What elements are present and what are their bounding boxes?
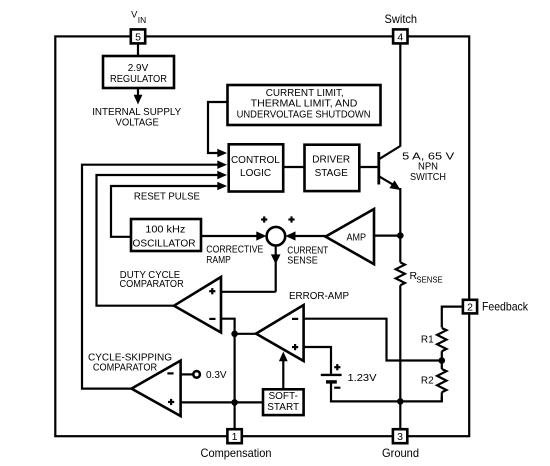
svg-text:SENSE: SENSE (416, 276, 442, 285)
svg-text:SOFT-: SOFT- (268, 391, 297, 402)
cycle skipping comparator label (88, 352, 172, 373)
pin 1 (Compensation) (227, 429, 241, 443)
svg-text:Compensation: Compensation (201, 446, 272, 460)
net current sense label (287, 245, 328, 266)
resistor R1 (437, 328, 446, 361)
regulator U-REG 2.9V (103, 56, 174, 88)
svg-text:100 kHz: 100 kHz (145, 225, 185, 236)
svg-text:Feedback: Feedback (482, 300, 529, 314)
wire cycle-skip output to control logic (82, 161, 227, 389)
net corrective ramp label (206, 245, 263, 266)
svg-text:2.9V: 2.9V (128, 63, 149, 74)
node junction emitter/amp/Rsense (397, 232, 404, 239)
oscillator block 100 kHz (131, 219, 201, 251)
wire oscillator reset pulse to control logic (111, 182, 227, 237)
pin 5 (Vin) (131, 29, 145, 43)
wire error-amp plus input to reference (304, 347, 331, 375)
pin 3 (Ground) (393, 429, 407, 443)
node junction ground net (397, 398, 404, 405)
wire oscillator to summing node (201, 231, 266, 240)
svg-text:CONTROL: CONTROL (231, 155, 280, 166)
duty cycle comparator label (120, 270, 184, 290)
battery reference 1.23V (321, 364, 342, 388)
svg-text:UNDERVOLTAGE SHUTDOWN: UNDERVOLTAGE SHUTDOWN (237, 110, 371, 121)
wire duty-cycle output to control logic (97, 171, 228, 306)
svg-text:SWITCH: SWITCH (410, 172, 446, 183)
svg-text:5: 5 (135, 31, 141, 43)
svg-text:COMPARATOR: COMPARATOR (120, 279, 184, 290)
svg-text:2: 2 (467, 302, 473, 314)
node Vin label (131, 10, 146, 25)
svg-text:DRIVER: DRIVER (312, 155, 350, 166)
block control logic (229, 144, 284, 191)
wire error-amp output (235, 333, 257, 335)
outer IC boundary (55, 36, 469, 436)
node junction compensation net (231, 399, 238, 406)
svg-text:STAGE: STAGE (315, 168, 348, 179)
wire regulator output arrow (134, 88, 143, 105)
svg-text:Ground: Ground (382, 446, 419, 460)
summing node plus sign left (261, 216, 267, 222)
summing node plus sign right (288, 216, 294, 222)
svg-text:3: 3 (397, 431, 403, 443)
comparator cycle skipping (132, 361, 181, 416)
svg-text:START: START (267, 402, 299, 413)
svg-text:AMP: AMP (347, 233, 367, 244)
wire limit-block to control-logic (208, 102, 227, 157)
svg-text:Switch: Switch (385, 12, 418, 26)
node junction error-amp output (231, 331, 238, 338)
block soft start (263, 389, 304, 415)
svg-text:THERMAL LIMIT, AND: THERMAL LIMIT, AND (251, 99, 358, 110)
svg-text:IN: IN (138, 15, 146, 25)
block current/thermal limit undervoltage shutdown (228, 85, 381, 125)
wire (137, 43, 139, 56)
wire (399, 43, 401, 146)
amp AMP current sense amplifier (326, 209, 375, 264)
node internal supply voltage label (92, 107, 181, 128)
wire soft-start to error-amp arrow (279, 352, 288, 390)
resistor Rsense (396, 236, 405, 430)
wire error-amp minus input to feedback divider (304, 319, 442, 361)
value Rsense label (410, 270, 443, 284)
svg-text:VOLTAGE: VOLTAGE (116, 117, 160, 128)
terminal 0.3V (193, 371, 200, 378)
svg-text:LOGIC: LOGIC (240, 168, 271, 179)
svg-text:RAMP: RAMP (206, 255, 231, 266)
resistor R2 (437, 361, 446, 402)
transistor Q1 NPN switch (379, 146, 401, 190)
pin 2 (Feedback) (463, 300, 477, 314)
wire driver-stage to transistor base (359, 166, 379, 168)
pin 4 (Switch) (393, 29, 407, 43)
error amplifier (256, 305, 304, 361)
svg-text:0.3V: 0.3V (206, 370, 227, 381)
wire duty-cycle minus input / compensation net (221, 319, 235, 430)
svg-text:1: 1 (232, 431, 238, 443)
svg-text:SENSE: SENSE (287, 255, 318, 266)
svg-text:REGULATOR: REGULATOR (110, 74, 167, 85)
svg-text:NPN: NPN (418, 162, 438, 173)
comparator duty cycle (174, 277, 221, 333)
transistor rating label (402, 151, 454, 183)
wire cycle-skip plus input to soft-start (181, 401, 263, 403)
wire control-logic to driver-stage (283, 166, 305, 168)
svg-text:INTERNAL SUPPLY: INTERNAL SUPPLY (92, 107, 181, 118)
svg-text:R2: R2 (421, 375, 434, 386)
wire feedback pin to R1 (442, 307, 463, 328)
svg-text:1.23V: 1.23V (348, 373, 377, 384)
svg-text:CURRENT LIMIT,: CURRENT LIMIT, (266, 88, 344, 99)
wire amp output to summing node (286, 231, 327, 240)
svg-text:ERROR-AMP: ERROR-AMP (289, 291, 349, 302)
wire battery negative to ground net (331, 382, 442, 402)
svg-text:4: 4 (397, 31, 403, 43)
block driver stage (305, 145, 360, 191)
svg-text:R1: R1 (421, 335, 434, 346)
wire summing node to duty-cycle comparator plus input (221, 245, 281, 291)
wire cycle-skip minus input to 0.3V terminal (181, 373, 193, 375)
svg-text:RESET PULSE: RESET PULSE (134, 191, 200, 202)
svg-text:OSCILLATOR: OSCILLATOR (133, 239, 196, 250)
summing node (267, 227, 286, 246)
svg-text:COMPARATOR: COMPARATOR (93, 363, 157, 374)
wire emitter to sense node (399, 188, 401, 236)
node junction R1/R2 divider (439, 357, 446, 364)
wire sense node to amp input (374, 235, 400, 237)
